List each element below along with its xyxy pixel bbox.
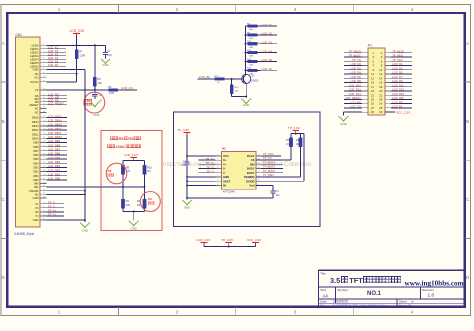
resistor R6 bbox=[108, 85, 137, 95]
svg-text:22: 22 bbox=[43, 129, 45, 131]
svg-text:LCD_BL: LCD_BL bbox=[199, 75, 211, 79]
svg-text:2: 2 bbox=[176, 310, 179, 315]
svg-text:LCD_DB0: LCD_DB0 bbox=[48, 177, 61, 181]
svg-text:GND: GND bbox=[33, 196, 39, 200]
connector P1 net labels left bbox=[344, 50, 362, 109]
power flag LCD_3.3V (divider) bbox=[124, 153, 138, 161]
net labels LCD_K1..LCD_K6 bbox=[47, 46, 67, 68]
svg-text:11: 11 bbox=[43, 80, 45, 82]
net label LCD_K1 bbox=[261, 23, 278, 27]
svg-text:5: 5 bbox=[217, 171, 218, 173]
svg-text:DB3: DB3 bbox=[33, 166, 39, 170]
capacitor C1 bbox=[103, 45, 112, 58]
svg-text:5: 5 bbox=[43, 58, 44, 60]
svg-text:LCD_D8: LCD_D8 bbox=[350, 79, 361, 83]
svg-text:TP_Y-: TP_Y- bbox=[207, 169, 214, 173]
wire CS row bbox=[47, 89, 109, 91]
svg-text:15: 15 bbox=[43, 100, 45, 102]
svg-text:DB4: DB4 bbox=[33, 161, 39, 165]
net labels LCD_RS LCD_WR LCD_RD LCD_RESET bbox=[47, 93, 68, 106]
svg-text:GND: GND bbox=[33, 218, 39, 222]
svg-text:DOUT: DOUT bbox=[247, 171, 255, 175]
svg-text:LCD_DB12: LCD_DB12 bbox=[48, 127, 62, 131]
svg-text:TP_Y-: TP_Y- bbox=[48, 205, 55, 209]
svg-text:YU: YU bbox=[35, 214, 39, 218]
svg-text:LCD_K1: LCD_K1 bbox=[262, 23, 273, 27]
ground bbox=[241, 98, 251, 106]
svg-text:LCD_3.3V: LCD_3.3V bbox=[124, 153, 138, 157]
svg-text:33: 33 bbox=[43, 174, 45, 176]
svg-text:IOVDD: IOVDD bbox=[246, 179, 255, 183]
svg-text:DB10: DB10 bbox=[32, 136, 39, 140]
svg-text:44: 44 bbox=[43, 219, 45, 221]
svg-text:1: 1 bbox=[58, 310, 61, 315]
wire DIN row bbox=[262, 163, 284, 165]
svg-text:LEDK3: LEDK3 bbox=[30, 54, 39, 58]
svg-text:GND: GND bbox=[82, 229, 88, 233]
svg-text:GND: GND bbox=[223, 175, 229, 179]
svg-text:LCD_BL: LCD_BL bbox=[392, 105, 403, 109]
wire divider bottom rail bbox=[123, 211, 145, 221]
svg-text:NC: NC bbox=[147, 169, 151, 173]
resistor R8 (not mounted) bbox=[121, 165, 130, 186]
annotation circle R9 mounted bbox=[140, 192, 160, 212]
svg-text:13: 13 bbox=[258, 167, 260, 169]
svg-text:DB11: DB11 bbox=[32, 132, 39, 136]
power flag TP_3.3V (right) bbox=[288, 126, 300, 133]
svg-text:Y+: Y+ bbox=[223, 162, 227, 166]
power flag TP_3.3V (left) bbox=[178, 128, 191, 135]
svg-text:43: 43 bbox=[43, 215, 45, 217]
svg-text:TP_BUSY: TP_BUSY bbox=[263, 165, 275, 169]
svg-text:2: 2 bbox=[43, 47, 44, 49]
svg-text:16: 16 bbox=[258, 154, 260, 156]
net label LCD_K5 bbox=[261, 58, 278, 62]
svg-text:TP_MOSI: TP_MOSI bbox=[263, 160, 275, 164]
svg-text:U1: U1 bbox=[222, 147, 226, 151]
wire emitter to ground bbox=[245, 84, 247, 99]
svg-text:XL: XL bbox=[35, 202, 39, 206]
ground bbox=[88, 100, 102, 118]
svg-text:29: 29 bbox=[371, 110, 375, 114]
ground bbox=[101, 59, 110, 63]
svg-text:DB12: DB12 bbox=[32, 128, 39, 132]
svg-text:B: B bbox=[2, 119, 5, 124]
svg-text:IN: IN bbox=[223, 184, 226, 188]
svg-text:LCD_D3: LCD_D3 bbox=[392, 66, 403, 70]
svg-text:Title: Title bbox=[320, 272, 326, 276]
wire LEDA rail bbox=[47, 36, 106, 47]
svg-text:LCD_DB11: LCD_DB11 bbox=[48, 131, 62, 135]
svg-text:34: 34 bbox=[43, 178, 45, 180]
svg-text:LCD_K3: LCD_K3 bbox=[48, 53, 59, 57]
svg-text:10K: 10K bbox=[97, 81, 102, 85]
svg-text:10K: 10K bbox=[126, 203, 131, 207]
wire VCC rail bbox=[186, 135, 215, 200]
svg-text:R18: R18 bbox=[296, 138, 301, 142]
svg-text:LCD_DB6: LCD_DB6 bbox=[48, 152, 61, 156]
svg-text:16bit: 16bit bbox=[116, 144, 126, 149]
svg-text:4: 4 bbox=[411, 7, 414, 12]
annotation circle (floating, do not mount) bbox=[84, 92, 105, 113]
IC U1 pins bbox=[216, 154, 262, 188]
svg-text:39: 39 bbox=[43, 197, 45, 199]
ground bbox=[338, 116, 348, 126]
svg-text:3: 3 bbox=[294, 310, 297, 315]
svg-text:104: 104 bbox=[107, 53, 112, 57]
resistor R8 bbox=[246, 24, 261, 32]
capacitor C2 (not mounted) bbox=[92, 90, 103, 99]
svg-text:26: 26 bbox=[43, 145, 45, 147]
wire BUSY row bbox=[262, 168, 284, 170]
svg-text:ILI9488_40pin: ILI9488_40pin bbox=[14, 232, 34, 236]
connector P1 bbox=[368, 44, 385, 116]
svg-text:40: 40 bbox=[43, 202, 45, 204]
svg-text:GND: GND bbox=[33, 68, 39, 72]
svg-text:DB8: DB8 bbox=[33, 145, 39, 149]
svg-text:8: 8 bbox=[217, 184, 218, 186]
svg-text:LCD_D10: LCD_D10 bbox=[349, 83, 361, 87]
resistor R5 10K bbox=[93, 45, 102, 90]
svg-text:LCD_D14: LCD_D14 bbox=[349, 92, 361, 96]
svg-text:41: 41 bbox=[43, 206, 45, 208]
svg-text:LCD_D2: LCD_D2 bbox=[350, 66, 361, 70]
svg-text:DB15: DB15 bbox=[32, 116, 39, 120]
svg-text:R5: R5 bbox=[97, 77, 101, 81]
resistor R9 bbox=[137, 187, 146, 212]
svg-text:DB1: DB1 bbox=[33, 174, 39, 178]
svg-text:LCD_D5: LCD_D5 bbox=[392, 71, 403, 75]
svg-text:TP_SCK: TP_SCK bbox=[392, 58, 403, 62]
svg-text:104: 104 bbox=[182, 164, 187, 167]
svg-text:LCD_DB14: LCD_DB14 bbox=[48, 118, 62, 122]
svg-text:R17: R17 bbox=[286, 138, 291, 142]
svg-text:10R: 10R bbox=[249, 56, 253, 58]
wire IM0 mid rail bbox=[85, 186, 146, 188]
net label LCD_BL bbox=[198, 75, 211, 79]
svg-text:TP_CS: TP_CS bbox=[263, 156, 272, 160]
svg-text:VCC: VCC bbox=[223, 154, 229, 158]
svg-text:NC: NC bbox=[35, 111, 39, 115]
svg-text:28: 28 bbox=[43, 154, 45, 156]
svg-text:LCD_RD: LCD_RD bbox=[392, 100, 403, 104]
svg-text:2: 2 bbox=[217, 159, 218, 161]
capacitor C4 bbox=[256, 185, 280, 198]
svg-text:DB5: DB5 bbox=[33, 157, 39, 161]
svg-text:LCD_RESET: LCD_RESET bbox=[345, 96, 361, 100]
svg-text:1: 1 bbox=[58, 7, 61, 12]
transistor Q1 S8050 bbox=[242, 74, 259, 83]
svg-text:10R: 10R bbox=[249, 64, 253, 66]
resistor R11 bbox=[245, 50, 261, 58]
svg-text:GND: GND bbox=[93, 113, 99, 117]
svg-text:TP_SCK: TP_SCK bbox=[263, 152, 274, 156]
svg-text:10R: 10R bbox=[249, 29, 253, 31]
svg-text:38: 38 bbox=[43, 193, 45, 195]
wire CS row to pull-up bbox=[256, 159, 291, 161]
svg-text:R9: R9 bbox=[148, 197, 152, 201]
svg-text:LCD_D4: LCD_D4 bbox=[350, 71, 361, 75]
wire divider top rail bbox=[123, 161, 145, 166]
svg-text:LCD_3.3V: LCD_3.3V bbox=[70, 29, 86, 33]
svg-text:Y-: Y- bbox=[223, 171, 226, 175]
svg-text:LCD_CS: LCD_CS bbox=[121, 86, 133, 90]
svg-text:LCD_RS: LCD_RS bbox=[350, 100, 361, 104]
svg-text:VBAT: VBAT bbox=[223, 179, 230, 183]
svg-text:LCD_D9: LCD_D9 bbox=[392, 79, 403, 83]
svg-text:1: 1 bbox=[217, 154, 218, 156]
svg-text:XR: XR bbox=[35, 210, 39, 214]
svg-text:3.5: 3.5 bbox=[330, 276, 340, 285]
svg-text:IM1: IM1 bbox=[34, 185, 39, 189]
wire IOVDD row bbox=[256, 180, 304, 182]
resistor R13 bbox=[245, 68, 261, 76]
svg-text:VCC_3.3V: VCC_3.3V bbox=[396, 110, 410, 114]
svg-text:LCD_WR: LCD_WR bbox=[392, 96, 403, 100]
wire GND bus bbox=[47, 70, 85, 222]
svg-text:3: 3 bbox=[43, 51, 44, 53]
net label LCD_K2 bbox=[261, 32, 278, 36]
svg-text:TP_X-: TP_X- bbox=[48, 200, 56, 204]
svg-text:104: 104 bbox=[275, 194, 280, 197]
svg-text:TP_BUSY: TP_BUSY bbox=[349, 54, 361, 58]
svg-text:LCD_K6: LCD_K6 bbox=[48, 63, 59, 67]
svg-text:30: 30 bbox=[43, 162, 45, 164]
svg-text:Drawn By:: Drawn By: bbox=[399, 303, 413, 307]
power flag VCC_3.3V (tie) bbox=[247, 238, 261, 246]
resistor R14 bbox=[211, 76, 244, 84]
svg-text:GND: GND bbox=[243, 103, 249, 107]
section box: touch controller bbox=[174, 112, 321, 226]
svg-text:16: 16 bbox=[43, 103, 45, 105]
svg-text:X+: X+ bbox=[223, 158, 227, 162]
svg-text:TP_X+: TP_X+ bbox=[206, 157, 215, 161]
svg-text:LCD_K4: LCD_K4 bbox=[262, 49, 273, 53]
resistor R2 bbox=[121, 187, 130, 212]
svg-text:31: 31 bbox=[43, 166, 45, 168]
resistor R10 bbox=[245, 41, 261, 49]
svg-text:GND: GND bbox=[102, 63, 108, 67]
svg-text:14: 14 bbox=[258, 163, 260, 165]
net label VCC_3.3V (P1 pin30) bbox=[385, 110, 410, 114]
svg-text:VCI: VCI bbox=[34, 76, 39, 80]
wire PENIRQ row to pull-up bbox=[256, 176, 301, 178]
svg-text:25: 25 bbox=[43, 141, 45, 143]
svg-text:TP_X-: TP_X- bbox=[206, 165, 214, 169]
svg-text:LCD_DB7: LCD_DB7 bbox=[48, 148, 61, 152]
svg-text:RESET: RESET bbox=[30, 103, 39, 107]
svg-text:R8: R8 bbox=[119, 136, 125, 141]
svg-text:R6: R6 bbox=[108, 85, 112, 89]
svg-text:LCD_D11: LCD_D11 bbox=[392, 83, 404, 87]
svg-text:14: 14 bbox=[43, 97, 45, 99]
svg-text:PENIRQ: PENIRQ bbox=[244, 175, 254, 179]
svg-text:GND: GND bbox=[130, 226, 136, 230]
resistor R17 bbox=[286, 138, 293, 160]
svg-text:NC: NC bbox=[35, 72, 39, 76]
svg-text:LCD_3.3V: LCD_3.3V bbox=[197, 238, 211, 242]
svg-text:4: 4 bbox=[43, 54, 44, 56]
svg-text:36: 36 bbox=[43, 185, 45, 187]
svg-text:FMARK: FMARK bbox=[29, 189, 39, 193]
svg-text:LCD_DB1: LCD_DB1 bbox=[48, 172, 61, 176]
svg-text:4: 4 bbox=[217, 167, 218, 169]
svg-text:TP_X+: TP_X+ bbox=[48, 209, 57, 213]
svg-text:30: 30 bbox=[379, 110, 383, 114]
connector P1 net labels right bbox=[391, 50, 412, 109]
svg-text:YD: YD bbox=[35, 206, 39, 210]
resistor R10 bbox=[143, 165, 153, 186]
net label LCD_K6 bbox=[261, 67, 278, 71]
svg-text:IOVCC: IOVCC bbox=[30, 80, 39, 84]
capacitor C3 bbox=[182, 160, 190, 167]
svg-text:E:\3.5TFT\3.5-TFT-LCD-ILI9488.: E:\3.5TFT\3.5-TFT-LCD-ILI9488.SchDoc bbox=[333, 303, 388, 307]
svg-text:LCD_DB13: LCD_DB13 bbox=[48, 123, 62, 127]
svg-text:LCD_D0: LCD_D0 bbox=[350, 62, 361, 66]
svg-text:6: 6 bbox=[217, 176, 218, 178]
resistor R18 bbox=[296, 138, 302, 177]
connector CN1 bbox=[14, 33, 40, 236]
wire VCI/IOVCC to 3.3V bbox=[47, 73, 78, 82]
power flag LCD_3.3V (tie) bbox=[197, 238, 211, 246]
svg-text:LCD_K6: LCD_K6 bbox=[262, 67, 273, 71]
svg-text:LCD_DB15: LCD_DB15 bbox=[48, 114, 62, 118]
annotation circle R8 not mounted bbox=[106, 163, 127, 184]
svg-text:LCD_CS: LCD_CS bbox=[350, 105, 361, 109]
svg-text:LCD_K3: LCD_K3 bbox=[262, 40, 273, 44]
wire power tie rail bbox=[204, 246, 255, 248]
svg-text:P1: P1 bbox=[368, 44, 372, 48]
net label LCD_K3 bbox=[261, 40, 278, 44]
svg-text:DB0: DB0 bbox=[33, 178, 39, 182]
svg-text:LEDA: LEDA bbox=[32, 43, 39, 47]
wire DOUT row bbox=[262, 172, 284, 174]
svg-text:35: 35 bbox=[43, 182, 45, 184]
svg-text:LCD_DB4: LCD_DB4 bbox=[48, 160, 61, 164]
svg-text:LCD_DB10: LCD_DB10 bbox=[48, 135, 62, 139]
svg-text:Revision: Revision bbox=[422, 288, 434, 292]
svg-text:12: 12 bbox=[258, 171, 260, 173]
svg-text:LCD_DB5: LCD_DB5 bbox=[48, 156, 61, 160]
wire NC/FMARK rows to GND bus bbox=[47, 190, 86, 196]
wire LED cathode bus bbox=[245, 26, 247, 74]
svg-text:23: 23 bbox=[43, 133, 45, 135]
svg-text:LCD_D6: LCD_D6 bbox=[350, 75, 361, 79]
annotation box: default R8/R9 not mounted, 16bit interface bbox=[101, 130, 162, 230]
wire P1 pin29 to ground bbox=[344, 112, 363, 115]
svg-text:19: 19 bbox=[43, 116, 45, 118]
resistor R9 bbox=[245, 32, 261, 40]
svg-text:S8050: S8050 bbox=[251, 80, 259, 83]
svg-text:LEDK2: LEDK2 bbox=[30, 50, 39, 54]
svg-text:7: 7 bbox=[217, 180, 218, 182]
svg-text:Size: Size bbox=[320, 288, 326, 292]
annotation text line2 bbox=[107, 144, 141, 149]
ground bbox=[182, 200, 192, 210]
svg-text:LCD_D13: LCD_D13 bbox=[392, 88, 404, 92]
resistor R12 bbox=[245, 59, 261, 67]
svg-text:C1: C1 bbox=[107, 49, 111, 53]
svg-text:www.ing10bbs.com: www.ing10bbs.com bbox=[405, 279, 464, 287]
svg-text:TP_MOSI: TP_MOSI bbox=[392, 50, 404, 54]
power flag LCD_3.3V bbox=[70, 29, 86, 36]
svg-text:12: 12 bbox=[43, 89, 45, 91]
svg-text:10K: 10K bbox=[296, 142, 301, 146]
svg-text:LCD_DB3: LCD_DB3 bbox=[48, 164, 61, 168]
svg-text:LCD_RESET: LCD_RESET bbox=[48, 101, 64, 105]
svg-text:3: 3 bbox=[217, 163, 218, 165]
svg-text:LCD_K2: LCD_K2 bbox=[262, 32, 273, 36]
svg-text:10R: 10R bbox=[249, 38, 253, 40]
svg-text:TP_MISO: TP_MISO bbox=[263, 169, 275, 173]
svg-text:CS: CS bbox=[251, 158, 255, 162]
svg-text:LCD_DB9: LCD_DB9 bbox=[48, 139, 61, 143]
power flag TP_3.3V (tie) bbox=[222, 238, 234, 246]
svg-text:13: 13 bbox=[43, 94, 45, 96]
ground bbox=[80, 222, 90, 232]
svg-text:R10: R10 bbox=[147, 166, 152, 170]
svg-text:LEDK4: LEDK4 bbox=[30, 57, 39, 61]
svg-text:LCD_K5: LCD_K5 bbox=[48, 60, 59, 64]
resistor R15 bbox=[230, 79, 246, 97]
annotation text line1 bbox=[110, 136, 141, 141]
svg-text:IM0: IM0 bbox=[34, 182, 39, 186]
svg-text:20: 20 bbox=[43, 120, 45, 122]
svg-text:1.0: 1.0 bbox=[428, 292, 435, 298]
svg-text:DCLK: DCLK bbox=[247, 154, 255, 158]
svg-text:NC: NC bbox=[35, 192, 39, 196]
svg-text:TP_3.3V: TP_3.3V bbox=[178, 128, 190, 132]
svg-text:LCD_D7: LCD_D7 bbox=[392, 75, 403, 79]
svg-text:32: 32 bbox=[43, 170, 45, 172]
svg-text:LCD_K5: LCD_K5 bbox=[262, 58, 273, 62]
svg-text:LCD_D1: LCD_D1 bbox=[392, 62, 403, 66]
svg-text:18: 18 bbox=[43, 111, 45, 113]
resistor R7 bbox=[75, 45, 86, 82]
wire C4 to ground rail bbox=[186, 197, 273, 199]
svg-text:37: 37 bbox=[43, 189, 45, 191]
svg-text:120R: 120R bbox=[79, 53, 85, 57]
svg-text:24: 24 bbox=[43, 137, 45, 139]
svg-text:10R: 10R bbox=[109, 91, 114, 95]
svg-text:R7: R7 bbox=[79, 50, 83, 54]
svg-text:10R: 10R bbox=[249, 47, 253, 49]
svg-text:B: B bbox=[466, 119, 469, 124]
svg-text:File: File bbox=[320, 303, 325, 307]
svg-text:2: 2 bbox=[176, 7, 179, 12]
wire DCLK row bbox=[262, 155, 282, 157]
svg-text:BUSY: BUSY bbox=[247, 167, 255, 171]
svg-text:LCD_K4: LCD_K4 bbox=[48, 56, 59, 60]
svg-text:VCC_3.3V: VCC_3.3V bbox=[247, 238, 261, 242]
svg-text:LCD_D15: LCD_D15 bbox=[392, 92, 404, 96]
svg-text:R2: R2 bbox=[126, 199, 130, 203]
svg-text:DB6: DB6 bbox=[33, 153, 39, 157]
connector CN1 pins bbox=[29, 43, 46, 222]
svg-text:Number: Number bbox=[337, 288, 348, 292]
svg-text:21: 21 bbox=[43, 125, 45, 127]
svg-text:R8: R8 bbox=[108, 169, 112, 173]
svg-text:27: 27 bbox=[43, 149, 45, 151]
svg-text:DIN: DIN bbox=[250, 162, 255, 166]
svg-text:7: 7 bbox=[43, 65, 44, 67]
net label LCD_K4 bbox=[261, 49, 278, 53]
svg-text:8: 8 bbox=[43, 68, 44, 70]
svg-text:DB2: DB2 bbox=[33, 170, 39, 174]
svg-text:1: 1 bbox=[43, 44, 44, 46]
net labels LCD_DB15..LCD_DB0 bbox=[47, 114, 68, 180]
svg-text:LCD_K2: LCD_K2 bbox=[48, 49, 59, 53]
